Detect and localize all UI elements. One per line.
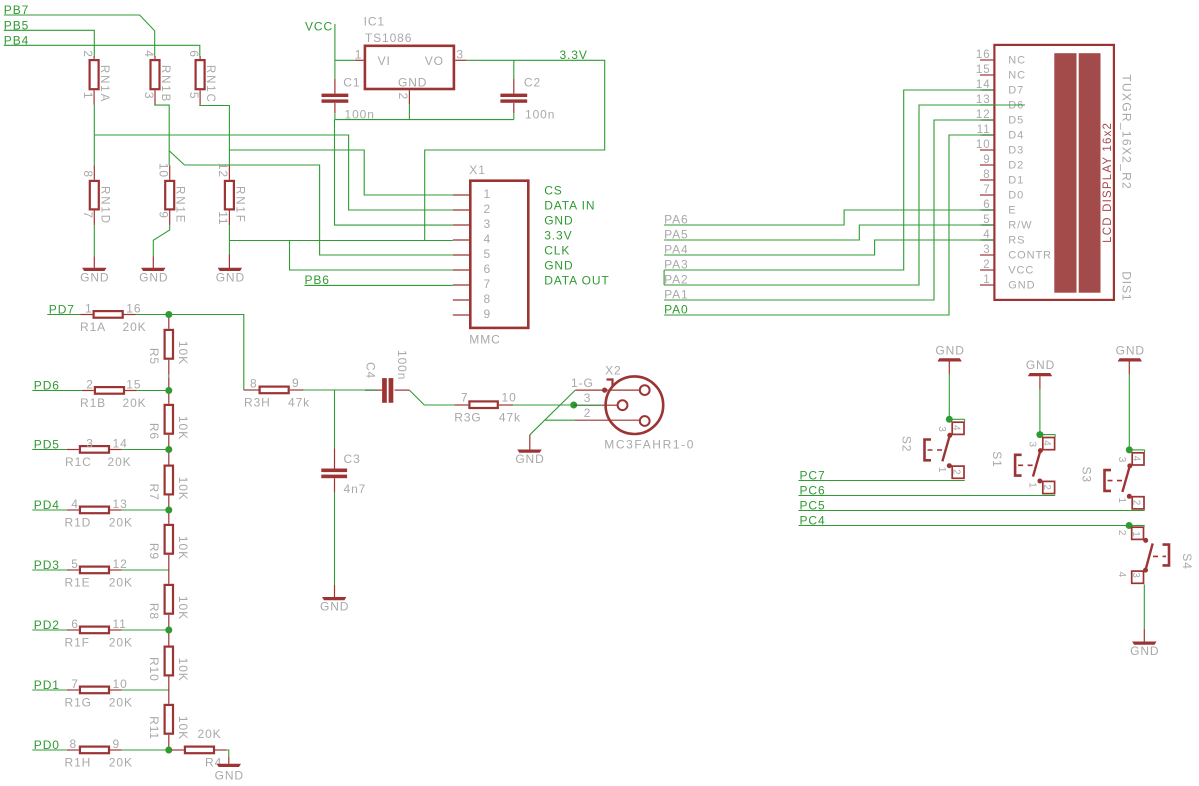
- wire S3 top pin: [1129, 449, 1144, 451]
- svg-text:20K: 20K: [109, 516, 133, 530]
- svg-text:R1E: R1E: [65, 576, 91, 590]
- wire below R5: [168, 375, 170, 378]
- svg-text:PA0: PA0: [664, 302, 689, 316]
- wire PC6: [799, 495, 1056, 497]
- svg-text:CLK: CLK: [544, 244, 570, 258]
- svg-text:3: 3: [936, 426, 947, 432]
- svg-text:11: 11: [977, 124, 991, 136]
- svg-text:TUXGR_16X2_R2: TUXGR_16X2_R2: [1120, 74, 1134, 190]
- svg-text:PA1: PA1: [664, 287, 689, 301]
- svg-text:6: 6: [71, 617, 79, 631]
- svg-text:9: 9: [292, 376, 300, 390]
- wire RN1A to RN1D / net DATA-IN: [93, 105, 95, 165]
- resistor R1F row PD2: [32, 617, 169, 650]
- svg-text:GND: GND: [320, 600, 349, 614]
- R7 top pin: [168, 450, 170, 465]
- wire C1-IC1-C2 ground net: [335, 119, 514, 121]
- resistor R1D row PD4: [32, 497, 169, 530]
- svg-text:E: E: [1008, 204, 1016, 216]
- C3 bottom pin: [334, 478, 336, 493]
- wire R1E to ladder: [122, 569, 169, 571]
- switch S3: [1079, 446, 1144, 509]
- capacitor C1 plates: [322, 94, 349, 103]
- wire PA3 to LCD: [664, 90, 982, 270]
- ground pin stub S4: [1143, 629, 1145, 642]
- svg-text:RN1B: RN1B: [159, 65, 171, 103]
- svg-text:RN1A: RN1A: [98, 65, 110, 103]
- connector X2 MC3FAHR1-0: [571, 363, 695, 451]
- svg-text:R11: R11: [147, 716, 161, 740]
- svg-text:10K: 10K: [176, 341, 190, 365]
- ground pin stub S1: [1039, 376, 1041, 389]
- wire X2 pin2 to ground: [545, 419, 575, 421]
- wire PC4: [799, 525, 1145, 527]
- svg-text:100n: 100n: [395, 350, 409, 380]
- connector X1 MMC: [453, 163, 529, 347]
- resistor R6 10K: [147, 391, 190, 450]
- svg-text:20K: 20K: [108, 455, 132, 469]
- svg-text:CONTR: CONTR: [1008, 249, 1052, 261]
- svg-text:4: 4: [950, 425, 961, 431]
- svg-text:10K: 10K: [176, 716, 190, 740]
- svg-text:7: 7: [983, 184, 990, 196]
- capacitor C1: [322, 76, 375, 122]
- svg-text:16: 16: [976, 49, 991, 61]
- svg-text:R/W: R/W: [1008, 219, 1032, 231]
- wire RN1C to RN1F / net CS: [200, 105, 230, 165]
- svg-text:15: 15: [976, 64, 991, 76]
- svg-text:8: 8: [81, 170, 95, 178]
- svg-text:R1D: R1D: [65, 516, 92, 530]
- resistor R3H body: [260, 387, 289, 394]
- svg-text:RN1F: RN1F: [233, 186, 245, 224]
- ground symbol GND under RN1D: [82, 268, 106, 271]
- wire PB6 to X1 pin7: [305, 284, 453, 286]
- svg-text:12: 12: [216, 163, 230, 178]
- svg-text:10K: 10K: [176, 536, 190, 560]
- svg-text:PA5: PA5: [664, 227, 689, 241]
- wire RN1B to X1 pin5 CLK: [155, 105, 453, 255]
- pin overlap below R5: [168, 377, 170, 390]
- resistor RN1C: [187, 50, 216, 105]
- svg-text:20K: 20K: [123, 396, 147, 410]
- svg-text:VO: VO: [425, 54, 444, 68]
- wire ground to S1: [1039, 389, 1041, 435]
- svg-text:D4: D4: [1008, 129, 1024, 141]
- R11 top pin: [168, 690, 170, 704]
- voltage regulator IC1 TS1086: [355, 14, 467, 104]
- resistor R9 10K: [147, 510, 190, 570]
- svg-text:D5: D5: [1008, 114, 1024, 126]
- resistor R1D body: [80, 507, 109, 514]
- resistor R3H 47k: [244, 376, 310, 409]
- svg-text:R1G: R1G: [65, 696, 92, 710]
- wire VCC to IC1 VI and C1: [334, 24, 336, 79]
- svg-text:PA4: PA4: [664, 242, 689, 256]
- svg-text:D7: D7: [1008, 84, 1024, 96]
- resistor R1H body: [80, 747, 109, 754]
- wire VCC to IC1 pin1: [335, 59, 355, 61]
- resistor R1G row PD1: [32, 677, 169, 710]
- R7 bottom pin: [168, 496, 170, 511]
- svg-text:7: 7: [484, 277, 492, 291]
- R9 bottom pin: [168, 555, 170, 570]
- ground pin stub: [334, 585, 336, 597]
- resistor R1A body: [94, 311, 123, 318]
- switch S1: [990, 431, 1055, 494]
- junction at ladder y=630.0: [165, 627, 172, 634]
- wire ground net to X1 pin3: [335, 120, 453, 226]
- wire ground to S3: [1128, 374, 1130, 450]
- svg-text:12: 12: [976, 109, 991, 121]
- svg-text:S3: S3: [1079, 467, 1093, 483]
- wire R1H to ladder: [122, 749, 169, 751]
- svg-text:GND: GND: [398, 76, 427, 90]
- svg-text:3: 3: [1130, 572, 1141, 578]
- wire ground to S2: [948, 374, 950, 419]
- junction S1 top: [1036, 431, 1043, 438]
- resistor R1E row PD3: [32, 557, 169, 590]
- svg-text:R5: R5: [147, 348, 161, 365]
- svg-text:11: 11: [113, 617, 127, 631]
- junction S2 top: [946, 416, 953, 423]
- R5 top pin: [168, 315, 170, 329]
- resistor R8 10K: [147, 570, 190, 630]
- junction at ladder y=449.5: [165, 446, 172, 453]
- svg-text:VCC: VCC: [305, 20, 333, 34]
- svg-text:9: 9: [983, 154, 990, 166]
- svg-text:10: 10: [157, 163, 171, 178]
- wire to X1 pin4 3.3V: [229, 240, 452, 242]
- svg-text:D2: D2: [1008, 159, 1024, 171]
- ground symbol GND under RN1E: [141, 268, 165, 271]
- wire tick: [1143, 525, 1145, 528]
- wire PA4 to LCD: [664, 240, 982, 255]
- resistor R7 10K: [147, 450, 190, 511]
- svg-text:GND: GND: [139, 270, 168, 284]
- resistor R1B body: [95, 387, 124, 394]
- ground symbol GND above S1: [1028, 373, 1052, 376]
- svg-text:DATA OUT: DATA OUT: [544, 274, 609, 288]
- display DIS1 TUXGR_16X2_R2: [976, 45, 1134, 302]
- wire R4 to ground: [227, 750, 229, 757]
- svg-text:14: 14: [976, 79, 991, 91]
- svg-text:MC3FAHR1-0: MC3FAHR1-0: [604, 438, 695, 452]
- svg-text:3: 3: [86, 436, 94, 450]
- junction S4 on PC4: [1126, 522, 1133, 529]
- svg-text:3: 3: [142, 92, 156, 100]
- capacitor C2: [500, 76, 555, 122]
- svg-text:2: 2: [1116, 530, 1127, 536]
- wire PA6 to LCD: [664, 210, 982, 225]
- svg-text:R1H: R1H: [65, 756, 92, 770]
- svg-text:13: 13: [113, 497, 128, 511]
- junction at ladder y=314.5: [165, 311, 172, 318]
- svg-text:NC: NC: [1008, 54, 1026, 66]
- svg-text:4: 4: [1116, 572, 1127, 578]
- R6 bottom pin: [168, 435, 170, 450]
- svg-text:47k: 47k: [288, 396, 310, 410]
- resistor R1E body: [80, 567, 109, 574]
- wire branch to RN1E pin10: [168, 151, 170, 165]
- svg-text:10K: 10K: [176, 658, 190, 682]
- svg-text:MMC: MMC: [469, 333, 500, 347]
- C2 top pin: [513, 79, 515, 94]
- svg-text:1: 1: [484, 187, 492, 201]
- wire to C3: [334, 390, 336, 449]
- svg-text:2: 2: [983, 259, 990, 271]
- capacitor C4 100n: [364, 350, 410, 403]
- wire PD3 to R1E: [32, 569, 67, 571]
- resistor R5 10K: [147, 315, 190, 391]
- resistor R10 body: [165, 647, 173, 676]
- svg-text:1: 1: [936, 467, 947, 473]
- svg-text:D3: D3: [1008, 144, 1024, 156]
- wire overlap pin3: [574, 404, 602, 406]
- wire C3 to ground: [334, 493, 336, 585]
- wire S1 top pin: [1040, 434, 1055, 436]
- svg-text:10K: 10K: [176, 596, 190, 620]
- svg-text:20K: 20K: [109, 696, 133, 710]
- svg-text:GND: GND: [544, 259, 573, 273]
- svg-text:R1C: R1C: [65, 455, 92, 469]
- junction at ladder y=510.0: [165, 507, 172, 514]
- svg-text:14: 14: [113, 436, 128, 450]
- svg-text:C3: C3: [344, 452, 361, 466]
- wire PC5: [799, 510, 1145, 512]
- wire R1B to ladder: [137, 390, 169, 392]
- junction at ladder y=390.5: [165, 387, 172, 394]
- svg-text:20K: 20K: [109, 756, 133, 770]
- wire to X1 pin6 GND: [290, 241, 453, 271]
- R10 bottom pin: [168, 677, 170, 691]
- svg-text:2: 2: [1041, 484, 1052, 490]
- switch S4: [1116, 522, 1194, 583]
- svg-text:R3G: R3G: [454, 411, 481, 425]
- svg-text:C2: C2: [524, 76, 541, 90]
- resistor RN1F: [216, 163, 245, 226]
- R5 bottom pin: [168, 360, 170, 375]
- R8 top pin: [168, 570, 170, 584]
- wire PD0 to R1H: [32, 749, 67, 751]
- R6 top pin: [168, 391, 170, 404]
- svg-text:7: 7: [81, 211, 95, 219]
- svg-text:R7: R7: [147, 484, 161, 501]
- wire RN1E to ground: [153, 225, 169, 256]
- svg-text:C1: C1: [343, 76, 360, 90]
- svg-text:TS1086: TS1086: [365, 31, 412, 45]
- svg-text:4: 4: [1130, 456, 1141, 462]
- svg-text:3.3V: 3.3V: [544, 229, 572, 243]
- svg-text:9: 9: [484, 307, 492, 321]
- wire R1A to ladder: [136, 314, 169, 316]
- junction S3 top: [1126, 446, 1133, 453]
- wire X2 1-G to ground: [530, 390, 576, 435]
- svg-text:7: 7: [71, 677, 79, 691]
- svg-text:NC: NC: [1008, 69, 1026, 81]
- R9 top pin: [168, 510, 170, 524]
- svg-text:RS: RS: [1008, 234, 1025, 246]
- svg-text:X1: X1: [469, 163, 485, 177]
- svg-text:3: 3: [456, 48, 464, 62]
- wire R1G to ladder: [122, 689, 169, 691]
- R8 bottom pin: [168, 615, 170, 630]
- wire PA5 to LCD: [664, 225, 982, 240]
- svg-text:R8: R8: [147, 603, 161, 620]
- svg-text:6: 6: [187, 50, 201, 58]
- svg-text:15: 15: [126, 377, 141, 391]
- svg-text:RN1D: RN1D: [98, 186, 110, 225]
- svg-text:3: 3: [1027, 442, 1038, 448]
- wire C4 to R3G: [409, 390, 454, 405]
- svg-text:3: 3: [983, 244, 990, 256]
- resistor R1B row PD6: [32, 377, 169, 410]
- svg-text:GND: GND: [1008, 279, 1035, 291]
- svg-text:PA6: PA6: [664, 212, 689, 226]
- wire PB7 to RN1B: [4, 15, 155, 57]
- R11 bottom pin: [168, 735, 170, 750]
- wire 3.3V to C2: [513, 60, 515, 79]
- svg-text:4: 4: [1041, 440, 1052, 446]
- svg-text:R10: R10: [147, 657, 161, 682]
- svg-text:20K: 20K: [198, 727, 222, 741]
- wire PD1 to R1G: [32, 689, 67, 691]
- wire PD6 to R1B: [32, 390, 82, 392]
- wire PD4 to R1D: [32, 509, 67, 511]
- ground under R4: [217, 764, 241, 767]
- svg-text:16: 16: [126, 301, 141, 315]
- svg-text:R1A: R1A: [80, 320, 106, 334]
- ground pin stub: [529, 435, 531, 450]
- svg-text:3: 3: [484, 217, 492, 231]
- svg-text:2: 2: [484, 202, 492, 216]
- wire PA0 to LCD: [664, 135, 982, 315]
- svg-text:RN1C: RN1C: [204, 65, 216, 104]
- svg-text:GND: GND: [216, 270, 245, 284]
- wire RN1D to ground: [93, 225, 95, 256]
- ground pin stub: [228, 757, 230, 764]
- svg-text:3.3V: 3.3V: [560, 48, 588, 62]
- svg-text:10K: 10K: [176, 416, 190, 440]
- ground pin stub S2: [948, 362, 950, 375]
- svg-text:10K: 10K: [176, 477, 190, 501]
- svg-text:S2: S2: [899, 436, 913, 452]
- resistor R11 10K: [147, 690, 190, 750]
- resistor R1C row PD5: [32, 436, 169, 469]
- junction at ladder y=750.0: [165, 747, 172, 754]
- resistor R6 body: [165, 405, 173, 434]
- C2 bottom pin: [513, 103, 515, 113]
- resistor R9 body: [165, 525, 173, 554]
- ground pin stub: [152, 256, 154, 268]
- svg-text:2: 2: [81, 50, 95, 58]
- ground pin stub: [93, 256, 95, 268]
- svg-text:2: 2: [1130, 500, 1141, 506]
- svg-text:20K: 20K: [123, 320, 147, 334]
- svg-text:5: 5: [484, 247, 492, 261]
- wire PB5 to RN1A: [4, 30, 95, 56]
- resistor RN1D: [81, 165, 110, 225]
- svg-text:PA2: PA2: [664, 272, 689, 286]
- wire S2 top pin: [949, 418, 964, 420]
- svg-text:4: 4: [484, 232, 492, 246]
- wire R3H to C4: [304, 389, 372, 391]
- svg-text:GND: GND: [215, 769, 244, 783]
- svg-text:GND: GND: [1130, 644, 1159, 658]
- svg-text:10: 10: [113, 677, 128, 691]
- svg-text:2: 2: [396, 93, 410, 101]
- svg-text:13: 13: [976, 94, 991, 106]
- wire PA3-PA2 label edge: [663, 270, 665, 285]
- svg-text:1: 1: [355, 48, 363, 62]
- svg-text:2: 2: [86, 377, 94, 391]
- ground pin stub S3: [1128, 362, 1130, 375]
- resistor R5 body: [165, 330, 173, 359]
- svg-text:GND: GND: [544, 214, 573, 228]
- wire to X1 pin1 CS: [229, 150, 452, 195]
- switch S2: [899, 416, 964, 479]
- ground pin stub: [228, 255, 230, 268]
- svg-text:R9: R9: [147, 543, 161, 560]
- svg-text:LCD DISPLAY 16x2: LCD DISPLAY 16x2: [1102, 122, 1114, 243]
- svg-text:GND: GND: [1026, 358, 1055, 372]
- wire PA1 to LCD: [664, 120, 982, 300]
- wire D6 overshoot into DIS1: [982, 104, 1025, 106]
- svg-text:8: 8: [983, 169, 990, 181]
- wire R3G to X2 pin3: [513, 404, 574, 406]
- svg-text:20K: 20K: [109, 636, 133, 650]
- svg-text:GND: GND: [80, 270, 109, 284]
- svg-text:PA3: PA3: [664, 257, 689, 271]
- svg-text:1: 1: [1116, 498, 1127, 504]
- resistor R4 20K: [169, 727, 227, 770]
- svg-text:4: 4: [983, 229, 990, 241]
- svg-text:R6: R6: [147, 423, 161, 440]
- svg-text:8: 8: [70, 737, 78, 751]
- resistor RN1E: [157, 163, 186, 225]
- svg-text:5: 5: [71, 557, 79, 571]
- svg-text:4: 4: [71, 497, 79, 511]
- wire PC7: [799, 480, 965, 482]
- resistor R11 body: [165, 705, 173, 734]
- capacitor C3 4n7: [321, 449, 366, 497]
- svg-text:1: 1: [1027, 482, 1038, 488]
- svg-text:1: 1: [983, 274, 990, 286]
- resistor R1F body: [80, 627, 109, 634]
- svg-text:8: 8: [250, 377, 258, 391]
- wire R1F to ladder: [122, 629, 169, 631]
- wire 3.3V net: [425, 60, 605, 240]
- svg-text:GND: GND: [1116, 343, 1145, 357]
- svg-text:GND: GND: [515, 452, 544, 466]
- wire S4 top: [1129, 525, 1144, 527]
- wire tick: [964, 419, 966, 421]
- svg-text:X2: X2: [605, 363, 621, 377]
- wire tick: [1054, 435, 1056, 437]
- resistor R1G body: [80, 687, 109, 694]
- svg-text:VI: VI: [378, 54, 391, 68]
- resistor R10 10K: [147, 630, 190, 690]
- C3 top pin: [334, 449, 336, 469]
- svg-text:S1: S1: [990, 451, 1004, 467]
- wire tick: [1144, 450, 1146, 452]
- capacitor C2 plates: [500, 94, 527, 103]
- wire IC1 pin2 to ground net: [408, 104, 410, 119]
- svg-text:R3H: R3H: [244, 396, 271, 410]
- svg-text:3: 3: [584, 391, 592, 405]
- ground symbol GND under X2: [517, 450, 541, 453]
- wire PB4 to RN1C: [4, 45, 200, 56]
